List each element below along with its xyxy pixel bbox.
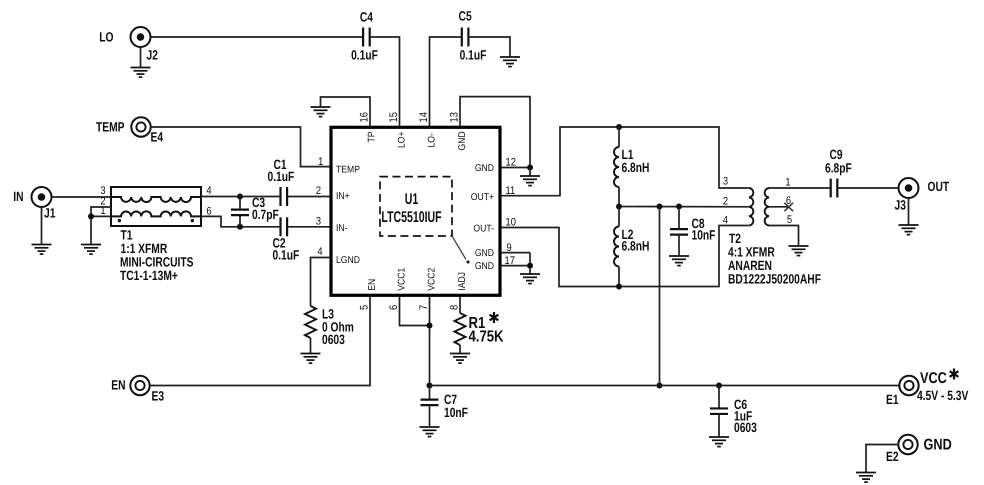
label R1 asterisk <box>490 312 499 323</box>
ground at E2 <box>856 473 876 483</box>
capacitor C2 <box>281 217 288 236</box>
wire T1 pin 6 to C2 <box>201 216 281 226</box>
svg-text:2: 2 <box>316 185 321 197</box>
wire C8 stem <box>678 207 680 230</box>
capacitor C5 <box>462 28 469 47</box>
wire pin 14 to C5 <box>430 37 462 126</box>
svg-text:0.1uF: 0.1uF <box>351 47 378 62</box>
svg-text:1: 1 <box>785 177 790 189</box>
svg-text:BD1222J50200AHF: BD1222J50200AHF <box>728 272 821 287</box>
svg-text:GND: GND <box>457 131 468 150</box>
wire E4 to pin 1 <box>150 127 330 167</box>
ground at J1 <box>32 245 52 255</box>
ground at pin 12 <box>520 176 540 186</box>
inductor L3 0 Ohm <box>305 306 316 338</box>
wire C7 stem <box>429 386 431 400</box>
ground at J2 <box>131 68 151 78</box>
svg-text:J2: J2 <box>147 48 158 63</box>
junction VCC at C7 <box>427 383 433 389</box>
svg-text:TP: TP <box>367 131 378 142</box>
svg-text:1: 1 <box>318 156 323 168</box>
svg-text:5: 5 <box>358 305 370 310</box>
junction C6 <box>716 383 722 389</box>
svg-text:IN+: IN+ <box>336 191 350 202</box>
svg-text:GND: GND <box>475 261 494 272</box>
terminal E4 <box>131 117 150 136</box>
svg-text:IN-: IN- <box>336 223 347 234</box>
wire LO to C4 <box>150 36 363 38</box>
wire pin 16 to ground <box>321 97 371 126</box>
wire C6 stem <box>718 386 720 409</box>
wire C8 to ground <box>678 235 680 256</box>
junction L1 top <box>616 124 622 130</box>
capacitor C9 <box>831 179 838 198</box>
wire L2 bottom stem <box>618 267 620 287</box>
wire pin 17 stub <box>501 266 530 274</box>
wire pin 11 OUT+ rail <box>501 127 749 196</box>
wire VCC vertical feed <box>659 207 661 386</box>
terminal E1 VCC <box>899 376 918 395</box>
label VCC asterisk <box>950 369 959 380</box>
svg-text:C5: C5 <box>459 8 472 23</box>
svg-text:C4: C4 <box>360 10 373 25</box>
terminal E2 GND <box>898 435 917 454</box>
svg-text:6: 6 <box>388 305 400 310</box>
wire EN to pin 5 <box>149 297 370 386</box>
svg-text:GND: GND <box>924 437 952 454</box>
svg-text:0.1uF: 0.1uF <box>268 169 295 184</box>
ground at C6 <box>709 437 729 447</box>
wire mid rail to T2 pin 2 <box>619 206 749 208</box>
svg-text:E4: E4 <box>151 130 164 145</box>
svg-text:0603: 0603 <box>734 420 757 435</box>
svg-text:LO-: LO- <box>427 133 438 147</box>
wire T1 pin 4 to C1 <box>201 196 281 198</box>
resistor R1 <box>455 313 466 345</box>
terminal E3 <box>130 376 149 395</box>
svg-text:15: 15 <box>388 112 400 122</box>
svg-text:J3: J3 <box>895 198 907 213</box>
capacitor C4 <box>363 28 370 47</box>
wire pin 9 stub <box>501 252 530 254</box>
svg-text:IN: IN <box>13 189 23 204</box>
svg-text:TC1-1-13M+: TC1-1-13M+ <box>120 268 178 283</box>
svg-text:4: 4 <box>206 185 211 197</box>
U1 exposed pad dot <box>467 261 470 264</box>
svg-text:10nF: 10nF <box>692 228 716 243</box>
svg-text:VCC2: VCC2 <box>427 268 438 291</box>
svg-text:GND: GND <box>475 248 494 259</box>
wire C3 stems <box>239 197 241 210</box>
svg-text:6.8nH: 6.8nH <box>622 160 650 175</box>
capacitor C3 <box>231 210 249 216</box>
svg-text:10nF: 10nF <box>444 405 468 420</box>
svg-text:U1: U1 <box>405 191 419 208</box>
junction mid rail VCC feed <box>657 204 663 210</box>
wire pin 10 OUT- rail <box>501 226 749 287</box>
wire pin 7 <box>429 297 431 386</box>
ground at C8 <box>669 256 689 266</box>
wire R1 to ground <box>459 345 461 354</box>
svg-text:2: 2 <box>723 196 728 208</box>
svg-text:OUT: OUT <box>928 179 950 194</box>
svg-text:6.8pF: 6.8pF <box>825 161 852 176</box>
ground at C7 <box>420 427 440 437</box>
wire pin 6 <box>400 297 430 326</box>
wire J1 to T1 pin 3 <box>51 196 111 198</box>
wire T2 pin 1 to C9 <box>769 187 831 189</box>
svg-text:TEMP: TEMP <box>96 120 125 135</box>
junction T1 pins 1-2 <box>88 213 94 219</box>
junction L1-L2 <box>616 204 622 210</box>
wire pin 4 to L3 <box>311 258 331 307</box>
wire C1 to pin 2 <box>287 196 330 198</box>
ground at L3 <box>301 354 321 364</box>
wire J2 ground stem <box>140 47 142 68</box>
U1 exposed pad dashed outline <box>380 177 452 236</box>
no-connect X at T2 pin 6 <box>784 203 793 211</box>
svg-text:5: 5 <box>787 214 792 226</box>
junction pins 9-17 <box>527 263 533 269</box>
svg-text:0603: 0603 <box>322 332 345 347</box>
svg-text:6.8nH: 6.8nH <box>622 239 650 254</box>
svg-text:4: 4 <box>317 246 322 258</box>
svg-text:4.5V - 5.3V: 4.5V - 5.3V <box>917 388 968 403</box>
svg-text:0.7pF: 0.7pF <box>252 207 279 222</box>
wire E2 to ground <box>866 445 899 473</box>
svg-text:13: 13 <box>448 112 460 122</box>
wire C3 stem lower <box>239 215 241 227</box>
junction VCC feed bottom <box>657 383 663 389</box>
wire C7 to ground <box>429 405 431 427</box>
svg-text:OUT-: OUT- <box>473 224 494 235</box>
wire L2 top stem <box>618 207 620 227</box>
junction pins 6-7 <box>427 323 433 329</box>
svg-text:3: 3 <box>723 176 728 188</box>
transformer T2 secondary winding <box>765 188 769 226</box>
svg-text:7: 7 <box>418 305 430 310</box>
svg-text:VCC1: VCC1 <box>397 268 408 291</box>
junction L2 bottom <box>616 284 622 290</box>
wire pin 13 to pin 12 ground <box>460 97 530 168</box>
svg-text:0.1uF: 0.1uF <box>273 248 300 263</box>
capacitor C7 <box>421 400 439 406</box>
ground at J3 <box>899 225 919 235</box>
node C3 top <box>237 194 243 200</box>
connector J3 <box>899 178 919 198</box>
svg-text:TEMP: TEMP <box>336 165 360 176</box>
svg-text:E1: E1 <box>886 392 899 407</box>
wire C2 to pin 3 <box>287 226 330 228</box>
svg-text:IADJ: IADJ <box>457 272 468 291</box>
svg-text:8: 8 <box>448 305 460 310</box>
wire pin 8 to R1 <box>459 297 461 313</box>
svg-text:EN: EN <box>111 378 125 393</box>
wire L3 to ground <box>310 338 312 354</box>
transformer T2 primary winding <box>749 188 753 226</box>
svg-text:14: 14 <box>418 112 430 122</box>
wire J1 ground stem <box>41 207 43 245</box>
wire C6 to ground <box>718 414 720 437</box>
ground at T2 pin 5 <box>789 246 809 256</box>
svg-text:LGND: LGND <box>336 255 360 266</box>
svg-text:VCC: VCC <box>920 370 947 387</box>
wire T2 pin 6 stub <box>769 206 789 208</box>
svg-text:J1: J1 <box>44 206 56 221</box>
node C3 bottom <box>237 224 243 230</box>
ground at T1 <box>81 245 101 255</box>
svg-text:LTC5510IUF: LTC5510IUF <box>381 209 441 226</box>
wire T1 pin 2 stub <box>91 207 111 216</box>
op-amp U1 LTC5510IUF body <box>331 127 500 295</box>
junction C8 top <box>676 204 682 210</box>
wire pin 12 ground stem <box>529 168 531 177</box>
ground at C5 <box>500 57 520 67</box>
connector J1 <box>32 187 52 207</box>
svg-text:16: 16 <box>358 112 370 122</box>
transformer T1 <box>111 187 201 226</box>
svg-text:E3: E3 <box>152 389 165 404</box>
ground at R1 <box>450 354 470 364</box>
svg-text:3: 3 <box>316 216 321 228</box>
inductor L1 <box>614 147 619 187</box>
wire J3 ground stem <box>908 198 910 225</box>
svg-text:4: 4 <box>723 215 728 227</box>
wire C4 to pin 15 <box>370 37 400 126</box>
inductor L2 <box>614 227 619 267</box>
ground at pin 16 <box>311 107 331 117</box>
svg-text:E2: E2 <box>886 449 899 464</box>
ground at pins 9-17 <box>520 274 540 284</box>
wire VCC rail <box>430 385 900 387</box>
wire T1 pin 1 stub <box>91 216 111 244</box>
svg-text:LO: LO <box>99 30 113 45</box>
svg-text:OUT+: OUT+ <box>471 192 494 203</box>
U1 exposed pad diagonal <box>452 236 466 260</box>
wire L1 bottom stem <box>618 187 620 207</box>
wire C9 to J3 <box>837 187 898 189</box>
connector J2 <box>131 27 151 47</box>
svg-text:4.75K: 4.75K <box>469 329 504 346</box>
capacitor C1 <box>281 187 288 206</box>
wire T2 pin 5 to ground <box>769 226 799 247</box>
capacitor C8 <box>670 229 688 235</box>
capacitor C6 <box>710 408 728 414</box>
svg-text:0.1uF: 0.1uF <box>460 48 487 63</box>
svg-text:GND: GND <box>475 163 494 174</box>
svg-text:EN: EN <box>367 279 378 291</box>
svg-text:LO+: LO+ <box>397 131 408 148</box>
wire L1 top stem <box>618 127 620 147</box>
wire pin 9-17 join <box>529 253 531 266</box>
wire C5 to ground <box>468 37 510 57</box>
wire pin 12 stub <box>501 167 530 169</box>
junction pin 12 ground <box>527 165 533 171</box>
